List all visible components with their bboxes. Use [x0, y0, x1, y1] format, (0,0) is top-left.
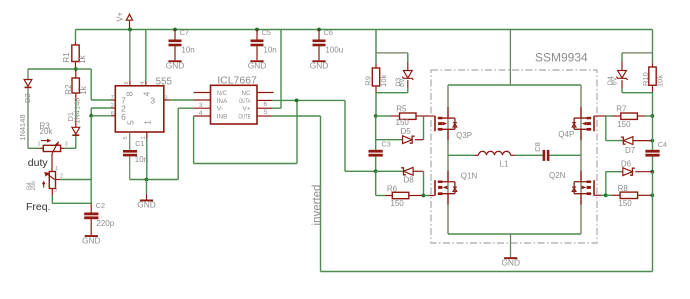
svg-text:1: 1: [38, 141, 41, 147]
ground under 555: [140, 200, 153, 202]
capacitor C5: [255, 28, 259, 32]
ground under C5: [250, 60, 263, 62]
svg-text:C5: C5: [262, 28, 271, 37]
svg-text:6: 6: [263, 101, 267, 108]
capacitor C1: [123, 150, 137, 153]
wire R9 bottom to node A: [375, 86, 377, 93]
wire node to pin 7 of 555: [76, 68, 91, 70]
wire 555 pin 8 to rail: [129, 30, 131, 82]
svg-text:L1: L1: [500, 159, 509, 168]
capacitor C6: [317, 28, 321, 32]
svg-text:C8: C8: [533, 142, 542, 152]
wire C4 down: [652, 157, 654, 172]
svg-text:R1: R1: [62, 52, 71, 63]
svg-text:C3: C3: [382, 139, 391, 148]
svg-text:7: 7: [111, 95, 114, 101]
svg-text:Q1N: Q1N: [461, 171, 478, 180]
inductor L1: [475, 154, 479, 156]
wire bridge left vertical: [447, 85, 449, 110]
svg-text:inverted: inverted: [311, 185, 323, 226]
junction R8 right node: [650, 193, 654, 197]
wire node to D2: [28, 68, 76, 70]
wire pins 2/6 down to R4 wiper: [90, 116, 92, 180]
svg-text:R7: R7: [616, 104, 627, 113]
wire C1 to ground node: [129, 156, 131, 179]
wire gate vertical to D7: [605, 116, 607, 141]
svg-text:5: 5: [123, 136, 129, 139]
wire R9 stub top: [375, 64, 377, 68]
svg-text:V+: V+: [115, 11, 124, 21]
svg-text:GND: GND: [166, 61, 185, 71]
capacitor C3: [369, 150, 383, 153]
svg-text:SSM9934: SSM9934: [535, 50, 588, 64]
svg-text:3: 3: [65, 141, 68, 147]
wire 555 pin 3 to ICL7667 INA: [164, 99, 170, 101]
wire rail to R1: [75, 30, 77, 43]
svg-text:150: 150: [390, 199, 404, 208]
transistor Q4P: [593, 116, 595, 132]
wire ICL7667 INB: [194, 115, 211, 117]
wire 555 pin 5 to C1: [129, 132, 131, 150]
svg-text:INB: INB: [217, 114, 228, 121]
svg-text:D5: D5: [401, 127, 412, 136]
wire gate lead Q4P: [595, 115, 606, 117]
transistor Q2N: [593, 180, 595, 196]
wire OUTA node down to R6: [375, 171, 377, 195]
svg-text:D8: D8: [404, 176, 415, 185]
capacitor C2: [84, 213, 98, 216]
ground under C7: [168, 60, 181, 62]
wire D2 branch to R3 pin1: [28, 147, 39, 149]
wire D8 to gate node B: [413, 170, 423, 172]
svg-text:C4: C4: [658, 140, 667, 149]
wire 555 pin 1 down: [146, 132, 148, 139]
wire branch to D4: [622, 52, 653, 54]
wire D1 to R3: [75, 136, 77, 148]
wire node A to R5: [376, 115, 391, 117]
svg-text:GND: GND: [82, 235, 101, 245]
svg-text:Freq.: Freq.: [26, 201, 51, 213]
svg-text:20k: 20k: [40, 127, 54, 136]
wire R4 bottom: [51, 189, 53, 196]
junction V+ on rail: [128, 28, 132, 32]
svg-text:150: 150: [617, 120, 631, 129]
svg-text:D7: D7: [625, 146, 636, 155]
schottky diode D8: [404, 167, 414, 175]
wire gate vertical Q2N: [605, 172, 607, 196]
junction D7 node: [650, 139, 654, 143]
capacitor C4: [645, 150, 659, 153]
wire OUTA to gate network A: [344, 100, 346, 171]
junction OUTA node: [295, 99, 299, 103]
wire R2 to D1: [75, 93, 77, 101]
wire gate node down to D5: [423, 116, 425, 140]
resistor R1 body: [72, 45, 79, 62]
wire D5 to gate node: [415, 139, 424, 141]
junction node A: [374, 114, 378, 118]
svg-text:8: 8: [124, 82, 130, 85]
svg-text:ICL7667: ICL7667: [217, 75, 257, 87]
svg-text:4: 4: [141, 91, 151, 96]
potentiometer R3 wiper arrow: [52, 144, 57, 154]
wire R3 pin3 to D1: [61, 147, 65, 149]
wire rail corner down right side: [652, 30, 654, 64]
junction ground node: [145, 178, 149, 182]
svg-text:100u: 100u: [325, 45, 343, 54]
svg-text:GND: GND: [137, 200, 156, 210]
resistor R5 body: [400, 113, 417, 119]
wire V+ rail: [76, 29, 653, 31]
svg-text:2: 2: [111, 103, 114, 109]
wire C2 to ground: [90, 219, 92, 235]
wire ICL7667 OUTB inverted net: [257, 115, 272, 117]
wire R7 to node C: [637, 115, 645, 117]
svg-text:INA: INA: [217, 98, 228, 105]
svg-text:N/C: N/C: [217, 90, 227, 97]
svg-text:10n: 10n: [181, 45, 194, 54]
wire OUTA node to D8: [376, 170, 403, 172]
wire R3 wiper to R4: [51, 154, 53, 172]
svg-text:R8: R8: [618, 184, 629, 193]
svg-text:1k: 1k: [78, 54, 87, 63]
svg-text:Q4P: Q4P: [558, 130, 574, 139]
svg-text:C6: C6: [324, 28, 333, 37]
svg-text:D6: D6: [621, 160, 632, 169]
svg-text:2: 2: [60, 174, 63, 180]
wire gate lead Q1N: [424, 195, 430, 197]
wire gate lead Q2N: [595, 194, 601, 196]
ground under C2: [85, 235, 98, 237]
wire L1 to C8: [515, 154, 544, 156]
svg-text:C1: C1: [135, 139, 144, 148]
svg-text:NC: NC: [242, 90, 251, 97]
wire 555 pin 4 to rail: [145, 30, 147, 82]
wire ICL7667 OUTA: [257, 99, 272, 101]
wire rail to R9: [375, 30, 377, 65]
wire ground node down: [146, 180, 148, 195]
svg-text:R6: R6: [387, 184, 398, 193]
junction gate node B: [422, 194, 426, 198]
svg-text:1k: 1k: [79, 85, 88, 94]
stub pin NC: [257, 92, 274, 94]
svg-text:3: 3: [54, 187, 57, 193]
wire wiper node down to C2: [90, 180, 92, 204]
wire gate node to R7: [606, 115, 612, 117]
svg-text:R10: R10: [641, 72, 650, 86]
junction node C: [650, 114, 654, 118]
svg-text:4: 4: [140, 82, 146, 85]
wire bridge right vertical: [580, 85, 582, 234]
svg-text:Q2N: Q2N: [549, 171, 566, 180]
svg-text:V+: V+: [243, 106, 251, 113]
schottky diode D6: [623, 168, 633, 176]
svg-text:1: 1: [55, 166, 58, 172]
wire D3 bottom: [407, 80, 409, 88]
wire D4 bottom: [621, 80, 623, 88]
svg-text:GND: GND: [501, 257, 520, 267]
wire R10 bottom to node C: [652, 85, 654, 92]
capacitor C8: [543, 150, 546, 161]
wire R8 to OUTB leg: [638, 194, 653, 196]
wire bridge top: [448, 84, 581, 86]
svg-text:R2: R2: [64, 84, 73, 95]
svg-text:duty: duty: [28, 157, 49, 169]
resistor R10 body: [649, 67, 656, 85]
svg-text:1N4148: 1N4148: [18, 114, 27, 140]
svg-text:Q3P: Q3P: [456, 131, 472, 140]
svg-text:GND: GND: [248, 61, 267, 71]
wire ICL7667 V- to ground: [194, 107, 211, 109]
wire gate lead Q3P: [424, 115, 435, 117]
svg-text:8: 8: [125, 91, 135, 96]
potentiometer R4 body: [49, 172, 55, 189]
svg-text:C2: C2: [96, 201, 105, 210]
junction D6 node: [650, 170, 654, 174]
schottky diode D5: [403, 136, 413, 144]
junction R8 left node: [604, 193, 608, 197]
svg-text:20k: 20k: [31, 180, 37, 191]
schottky diode D7: [623, 137, 633, 145]
wire C8 to right leg: [549, 154, 581, 156]
wire R6 to gate node B: [409, 195, 424, 197]
wire branch to D3: [376, 52, 408, 54]
transistor Q3P: [434, 116, 436, 132]
svg-text:150: 150: [396, 118, 410, 127]
wire R5 to gate node: [416, 115, 424, 117]
module SSM9934 boundary: [431, 70, 597, 243]
wire bridge mid row left: [448, 154, 475, 156]
svg-text:R5: R5: [396, 104, 407, 113]
wire bridge bottom: [448, 233, 581, 235]
junction pin 6 node: [89, 114, 93, 118]
wire to R8: [606, 194, 612, 196]
wire pin2 to pin6: [90, 108, 92, 116]
wire node A tap to D5: [375, 116, 377, 150]
wire R4 wiper: [56, 179, 61, 181]
svg-text:GND: GND: [310, 61, 329, 71]
ground under bridge: [504, 257, 517, 259]
supply symbol V+: [126, 14, 132, 20]
capacitor C7: [173, 28, 177, 32]
svg-text:150: 150: [618, 199, 632, 208]
wire C3 to OUTA node: [375, 157, 377, 172]
resistor R7 body: [621, 113, 638, 119]
resistor R6 body: [392, 192, 409, 198]
svg-text:OUTB: OUTB: [239, 114, 251, 121]
resistor R8 body: [620, 192, 638, 198]
wire V+ rail to bridge top: [509, 30, 511, 86]
svg-text:5: 5: [263, 109, 267, 116]
wire D2 to R3: [27, 88, 29, 148]
wire D6 left: [606, 171, 623, 173]
svg-text:10n: 10n: [263, 45, 276, 54]
wire OUTB leg down to bottom: [652, 172, 654, 272]
junction node R1/R2/D2/pin7: [74, 67, 78, 71]
potentiometer R3 body: [43, 145, 60, 151]
wire node C down to C4: [652, 116, 654, 150]
potentiometer R4 wiper arrow: [47, 174, 55, 180]
svg-text:1: 1: [143, 120, 153, 125]
wire R1 to node: [75, 62, 77, 70]
svg-text:6V: 6V: [399, 78, 406, 87]
wire 555 pin 2: [91, 107, 111, 109]
svg-text:6: 6: [111, 111, 114, 117]
svg-text:1N4148: 1N4148: [72, 98, 81, 124]
wire 555 pin 6: [91, 115, 111, 117]
svg-text:555: 555: [156, 76, 173, 87]
svg-text:R9: R9: [364, 76, 373, 86]
svg-text:220p: 220p: [96, 219, 114, 228]
svg-text:OUTA: OUTA: [239, 98, 251, 105]
zener diode D4: [618, 71, 627, 79]
IC 555 box: [115, 86, 164, 132]
svg-text:10k: 10k: [379, 74, 388, 86]
ground under C6: [312, 60, 325, 62]
svg-text:6V: 6V: [612, 76, 619, 85]
stub pin N/C: [194, 92, 211, 94]
svg-text:C7: C7: [180, 28, 189, 37]
wire bridge bottom to ground: [510, 234, 512, 257]
junction OUTA node A2: [374, 169, 378, 173]
transistor Q1N: [434, 180, 436, 196]
zener diode D3: [403, 71, 412, 79]
IC ICL7667 box: [211, 85, 258, 124]
wire node to R2: [75, 69, 77, 78]
wire R10 stub top: [652, 64, 654, 68]
svg-text:V-: V-: [217, 106, 224, 113]
wire D7 to node C leg: [633, 140, 653, 142]
wire D2 top: [27, 69, 29, 80]
diode D1: [72, 127, 80, 134]
svg-text:10k: 10k: [656, 75, 665, 87]
svg-text:5: 5: [125, 120, 135, 125]
resistor R2 body: [72, 78, 79, 93]
wire ICL7667 V+ to rail: [257, 107, 272, 109]
wire D6 to OUTB leg: [635, 171, 652, 173]
resistor R9 body: [372, 68, 379, 86]
diode D2: [24, 80, 32, 87]
